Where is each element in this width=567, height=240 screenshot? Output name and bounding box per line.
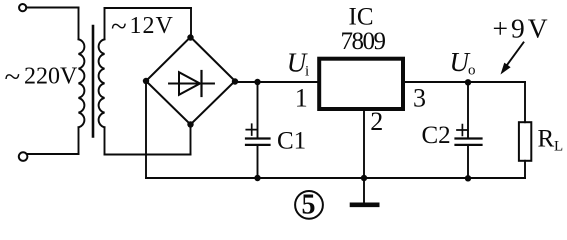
resistor RL top wire bbox=[524, 82, 526, 122]
terminal top-left bbox=[19, 4, 26, 11]
ground bar bbox=[352, 203, 377, 208]
svg-text:R: R bbox=[538, 126, 555, 153]
bottom rail bbox=[146, 177, 525, 179]
capacitor C1 plates bbox=[246, 139, 270, 145]
C1 plus sign bbox=[246, 124, 257, 135]
capacitor C1 top wire bbox=[257, 82, 259, 137]
svg-text:5: 5 bbox=[302, 190, 316, 221]
IC 7809 box bbox=[319, 59, 403, 109]
wire bridge left corner down bbox=[145, 81, 147, 178]
terminal bottom-left bbox=[19, 152, 28, 161]
C2 plus sign bbox=[457, 125, 468, 136]
IC pin2 wire bbox=[363, 111, 365, 178]
svg-text:12V: 12V bbox=[130, 13, 174, 39]
diode horizontal lead bbox=[169, 83, 214, 85]
wire secondary bottom horizontal bbox=[105, 154, 191, 156]
transformer secondary winding bbox=[99, 39, 105, 127]
junction bridge right bbox=[232, 78, 238, 84]
junction C2 bottom bbox=[465, 175, 471, 181]
wire secondary top horizontal bbox=[105, 7, 192, 9]
wire primary bottom stem bbox=[78, 127, 80, 154]
svg-text:3: 3 bbox=[413, 84, 426, 113]
svg-text:2: 2 bbox=[370, 107, 383, 136]
resistor RL bottom wire bbox=[524, 161, 526, 178]
svg-text:7809: 7809 bbox=[341, 28, 386, 55]
svg-text:C1: C1 bbox=[277, 127, 306, 154]
+9V arrowhead bbox=[501, 63, 511, 75]
wire bottom-left horizontal bbox=[28, 153, 79, 155]
+9V arrow shaft bbox=[506, 43, 524, 68]
svg-text:1: 1 bbox=[295, 84, 308, 113]
wire top-left horizontal bbox=[26, 7, 78, 9]
diode cathode bar bbox=[200, 71, 202, 96]
wire IC pin3 output bbox=[405, 81, 525, 83]
wire secondary top stem bbox=[104, 8, 106, 39]
capacitor C2 plates bbox=[456, 139, 482, 145]
wire into bridge top bbox=[190, 8, 192, 37]
junction bridge bottom bbox=[187, 121, 193, 127]
svg-text:C2: C2 bbox=[422, 122, 451, 149]
svg-text:i: i bbox=[305, 64, 309, 80]
svg-text:L: L bbox=[554, 139, 563, 155]
diode triangle bbox=[179, 72, 200, 95]
junction C1 bottom bbox=[254, 175, 260, 181]
wire primary top stem bbox=[78, 8, 80, 40]
svg-text:220V: 220V bbox=[24, 64, 78, 90]
capacitor C2 bottom wire bbox=[467, 146, 469, 179]
transformer primary winding bbox=[79, 39, 85, 127]
svg-text:~: ~ bbox=[5, 61, 21, 93]
transformer core bbox=[92, 26, 95, 137]
capacitor C2 top wire bbox=[467, 82, 469, 137]
ground stem bbox=[363, 178, 365, 203]
bridge rectifier diamond bbox=[146, 37, 235, 125]
svg-text:o: o bbox=[468, 63, 476, 79]
junction ground bbox=[361, 175, 367, 181]
svg-text:~: ~ bbox=[111, 11, 127, 43]
junction C2 top bbox=[465, 79, 471, 85]
junction bridge left bbox=[143, 78, 149, 84]
wire secondary bottom stem bbox=[104, 127, 106, 154]
junction C1 top bbox=[254, 79, 260, 85]
resistor RL body bbox=[519, 122, 531, 161]
junction bridge top bbox=[187, 34, 193, 40]
figure number circle bbox=[295, 191, 323, 219]
svg-text:IC: IC bbox=[349, 3, 374, 30]
svg-text:+9V: +9V bbox=[493, 13, 551, 44]
wire bridge right to IC pin1 bbox=[235, 81, 318, 83]
wire into bridge bottom bbox=[190, 125, 192, 155]
capacitor C1 bottom wire bbox=[257, 146, 259, 178]
